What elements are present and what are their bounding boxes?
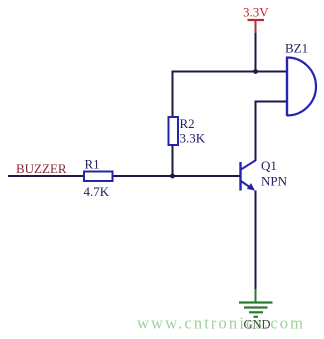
svg-text:GND: GND [244, 318, 271, 332]
svg-text:3.3V: 3.3V [243, 5, 269, 20]
svg-text:R2: R2 [180, 116, 195, 131]
buzzer BZ1 [285, 41, 316, 117]
wire top rail [172, 71, 288, 73]
svg-text:3.3K: 3.3K [180, 131, 206, 146]
wire emitter down [255, 191, 257, 290]
wire green stub to ground [255, 289, 257, 303]
svg-text:Q1: Q1 [261, 158, 277, 173]
svg-text:4.7K: 4.7K [84, 184, 110, 199]
node junction base rail [170, 174, 175, 179]
svg-text:BZ1: BZ1 [285, 41, 308, 56]
transistor Q1 [241, 158, 288, 191]
wire base rail [8, 175, 240, 177]
wire power drop [255, 33, 257, 72]
wire R2 to base rail [172, 145, 174, 176]
node junction top [253, 69, 258, 74]
power symbol 3.3V [243, 5, 269, 34]
resistor R2 [169, 116, 206, 146]
ground [239, 303, 273, 317]
resistor R1 [84, 157, 113, 200]
wire collector to buzzer [256, 102, 288, 161]
svg-text:BUZZER: BUZZER [16, 161, 67, 176]
svg-text:R1: R1 [85, 157, 100, 172]
svg-text:NPN: NPN [261, 174, 288, 189]
wire left drop to R2 [172, 71, 174, 118]
